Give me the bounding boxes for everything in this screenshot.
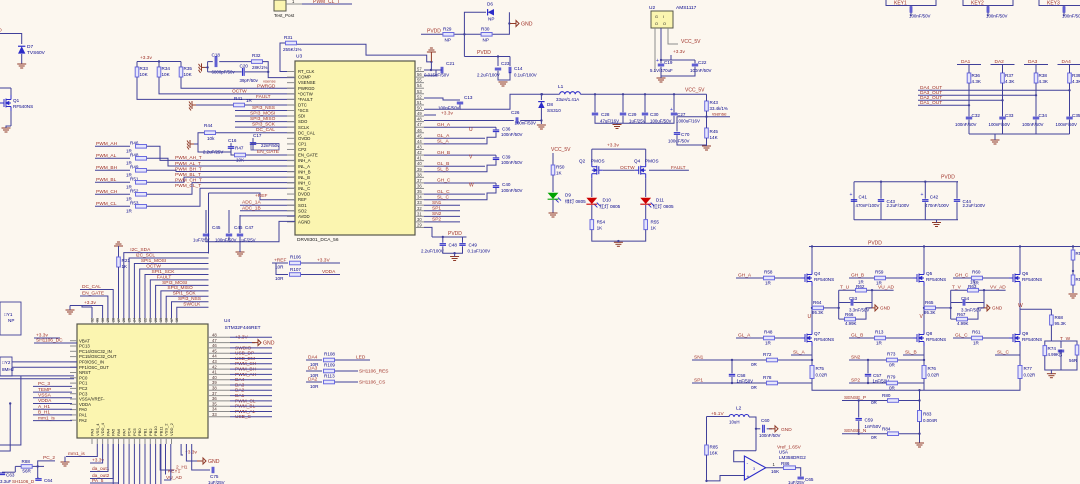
svg-text:PVDD: PVDD: [941, 175, 955, 181]
svg-text:0.1uF/100V: 0.1uF/100V: [514, 73, 537, 78]
svg-text:PB10: PB10: [153, 425, 158, 436]
pin SO2: [287, 210, 295, 212]
pin COMP: [287, 76, 295, 78]
pin PC3: [70, 393, 77, 395]
svg-text:PVDD: PVDD: [868, 241, 882, 247]
svg-text:VDDA: VDDA: [79, 402, 91, 407]
svg-text:41: 41: [417, 156, 422, 161]
svg-text:GL_A: GL_A: [437, 133, 450, 139]
microcontroller U4 STM32F446RET: [77, 324, 208, 438]
wire phase node: [811, 286, 813, 330]
svg-text:1K: 1K: [651, 226, 658, 231]
net label SN2: [424, 215, 460, 217]
svg-text:SCLK: SCLK: [298, 125, 309, 130]
svg-text:GND: GND: [521, 22, 533, 28]
svg-text:R77: R77: [1024, 366, 1033, 371]
svg-text:LM358DRG2: LM358DRG2: [779, 455, 806, 460]
pin INH_A: [287, 160, 295, 162]
pin 57: [415, 71, 424, 73]
resistor R48 1R: [764, 336, 775, 340]
svg-text:40: 40: [212, 375, 217, 380]
capacitor C32 100nF/50V: [966, 117, 972, 119]
capacitor C36 100nF/50V: [495, 127, 497, 129]
svg-text:PC5: PC5: [132, 427, 137, 436]
svg-text:100nF/50V: 100nF/50V: [1022, 122, 1044, 127]
svg-text:42: 42: [417, 150, 422, 155]
svg-text:39pF/50v: 39pF/50v: [240, 78, 259, 83]
svg-text:PA3: PA3: [90, 428, 95, 436]
svg-text:PB2: PB2: [148, 428, 153, 436]
svg-text:2.2uF/100V: 2.2uF/100V: [963, 203, 986, 208]
wire: [147, 146, 295, 160]
svg-text:C45: C45: [212, 225, 221, 230]
pin 29: [415, 226, 424, 228]
svg-text:33: 33: [417, 200, 422, 205]
svg-text:0R: 0R: [751, 385, 758, 390]
svg-text:C29: C29: [628, 112, 637, 117]
resistor R85 16K: [706, 417, 708, 446]
capacitor 100nF/50V KEY3: [1063, 6, 1065, 12]
pin 45: [415, 137, 424, 139]
pin PWRGD: [287, 87, 295, 89]
svg-text:L1: L1: [558, 84, 564, 90]
svg-text:O: O: [0, 28, 2, 34]
svg-text:R83: R83: [923, 412, 932, 417]
svg-text:23: 23: [138, 318, 142, 322]
svg-text:R64: R64: [813, 300, 822, 305]
svg-text:1K: 1K: [597, 226, 604, 231]
pin AVDD: [287, 215, 295, 217]
resistor R77 0.02R: [1019, 355, 1021, 366]
pin 1: [286, 3, 302, 5]
svg-text:PA5: PA5: [111, 428, 116, 436]
svg-text:GH_C: GH_C: [437, 178, 451, 184]
pin INL_B: [287, 176, 295, 178]
pin NRST: [70, 372, 77, 374]
svg-text:SH1106_D: SH1106_D: [12, 479, 35, 484]
svg-text:ADC_1A: ADC_1A: [242, 200, 261, 206]
svg-text:14K: 14K: [710, 135, 719, 140]
led D10 red 0805: [591, 178, 593, 197]
capacitor C29 1uF/25V: [620, 113, 626, 115]
svg-text:T_V: T_V: [952, 285, 962, 291]
svg-text:KEY2: KEY2: [971, 1, 984, 7]
transistor Q6 RF540NS: [983, 277, 1009, 279]
ground: [915, 443, 924, 447]
svg-text:PC13: PC13: [79, 344, 90, 349]
ground: [677, 135, 707, 145]
svg-text:0.02R: 0.02R: [816, 373, 828, 378]
capacitor C40 100nF/50V: [495, 183, 497, 185]
svg-text:255K/1%: 255K/1%: [283, 47, 302, 52]
svg-text:44: 44: [212, 354, 217, 359]
svg-text:R113: R113: [324, 374, 335, 379]
wire R34 to OCTW: [159, 77, 295, 94]
svg-text:VSS_2: VSS_2: [164, 423, 169, 436]
pin SDO: [287, 121, 295, 123]
net label SL_A: [424, 143, 455, 145]
pin 43: [415, 148, 424, 150]
wire ground caps: [595, 116, 674, 123]
svg-text:100nF/50V: 100nF/50V: [1062, 14, 1080, 19]
pin 48 +3.3V: [208, 336, 230, 338]
pin *SCS: [287, 109, 295, 111]
pin 32: [415, 210, 424, 212]
wire: [464, 56, 510, 58]
svg-text:vsense: vsense: [712, 112, 727, 117]
svg-text:35: 35: [417, 189, 422, 194]
ground: [199, 63, 206, 73]
wire: [147, 188, 295, 206]
svg-text:CP1: CP1: [298, 142, 307, 147]
diode D7 TVS60V: [18, 46, 25, 53]
wire: [198, 133, 231, 152]
resistor R78 0R: [767, 381, 778, 385]
svg-text:+REF: +REF: [255, 193, 267, 199]
svg-text:100nF/50V: 100nF/50V: [1056, 122, 1078, 127]
pin 35: [415, 193, 424, 195]
net label SP2: [424, 221, 460, 223]
resistor R79 0R: [887, 381, 898, 385]
svg-text:SDO: SDO: [298, 119, 308, 124]
svg-text:R88: R88: [22, 459, 31, 464]
resistor R88 56R: [21, 465, 32, 469]
svg-text:AMS1117: AMS1117: [676, 5, 697, 11]
svg-text:46: 46: [417, 128, 422, 133]
wire: [1035, 120, 1037, 134]
pin 30: [415, 221, 424, 223]
svg-text:C21: C21: [446, 61, 455, 66]
svg-text:R55: R55: [651, 220, 660, 225]
svg-text:OCTW: OCTW: [620, 165, 635, 171]
svg-text:R76: R76: [928, 366, 937, 371]
svg-text:红灯 0805: 红灯 0805: [600, 203, 621, 210]
svg-text:NRST: NRST: [79, 370, 91, 375]
svg-text:100nF/50V: 100nF/50V: [989, 122, 1011, 127]
svg-text:SL_B: SL_B: [437, 167, 449, 173]
net label VDDA: [301, 274, 340, 276]
svg-text:CP2: CP2: [298, 147, 307, 152]
svg-text:R106: R106: [290, 255, 301, 260]
wire: [177, 307, 209, 318]
node V: [923, 307, 925, 309]
pin PA0: [70, 409, 77, 411]
svg-text:INL_B: INL_B: [298, 175, 310, 180]
svg-text:33.4k/1%: 33.4k/1%: [710, 106, 728, 111]
wire: [140, 269, 209, 318]
svg-text:37: 37: [417, 178, 422, 183]
svg-text:0.004R: 0.004R: [923, 418, 937, 423]
svg-text:R43: R43: [710, 100, 719, 105]
svg-text:0R: 0R: [889, 386, 896, 391]
ground: [991, 140, 1000, 144]
capacitor C47 1uF/25V: [239, 215, 241, 233]
resistor R107 10R: [276, 263, 288, 275]
pin 46: [415, 132, 424, 134]
svg-text:+: +: [747, 475, 750, 481]
resistor R68 95.3K: [1050, 315, 1054, 325]
svg-text:17: 17: [170, 318, 174, 322]
svg-text:PVDD: PVDD: [448, 231, 462, 237]
ground flag GND: [508, 22, 510, 24]
svg-text:VDD_4: VDD_4: [100, 422, 105, 436]
svg-text:Q5: Q5: [926, 271, 933, 276]
svg-text:C58: C58: [737, 373, 746, 378]
svg-text:C48: C48: [449, 243, 458, 248]
transistor Q7 RF540NS: [775, 337, 801, 339]
svg-text:TVS60V: TVS60V: [27, 50, 46, 56]
pin 50: [415, 109, 424, 111]
svg-text:2.2uF/100V: 2.2uF/100V: [887, 203, 910, 208]
svg-text:R44: R44: [204, 123, 213, 128]
svg-text:INH_B: INH_B: [298, 169, 311, 174]
wire: [15, 465, 21, 467]
svg-text:*FAULT: *FAULT: [298, 97, 313, 102]
svg-text:C70: C70: [681, 132, 690, 137]
capacitor C13 100nF/50V: [424, 98, 460, 100]
wire: [21, 54, 23, 64]
op-amp U5A LM358DRG2: [744, 456, 765, 480]
pin 48: [415, 121, 424, 123]
resistor R41 1R: [234, 103, 245, 107]
svg-text:R45: R45: [710, 129, 719, 134]
svg-text:R107: R107: [290, 267, 301, 272]
svg-text:R68: R68: [1055, 315, 1064, 320]
svg-text:*SCS: *SCS: [298, 108, 309, 113]
svg-text:34: 34: [417, 195, 422, 200]
svg-text:GND: GND: [263, 341, 275, 347]
transistor Q5 RF540NS: [886, 277, 913, 279]
svg-text:RT_CLK: RT_CLK: [298, 69, 315, 74]
wire: [150, 280, 208, 318]
svg-text:PC15/OSC32_OUT: PC15/OSC32_OUT: [79, 354, 117, 359]
svg-text:PC1: PC1: [79, 381, 88, 386]
svg-text:PWM_AL_T: PWM_AL_T: [175, 161, 201, 167]
svg-text:30: 30: [417, 217, 422, 222]
svg-text:1000uF/16V: 1000uF/16V: [676, 119, 700, 124]
resistor R58 1R: [764, 276, 775, 280]
resistor R21 1K: [114, 242, 123, 246]
wire pin48: [424, 120, 514, 122]
capacitor 100nF/50V KEY2: [987, 6, 989, 12]
svg-text:C14: C14: [514, 66, 523, 71]
pin 51: [415, 104, 424, 106]
transistor Q1 RF540NS: [0, 95, 11, 111]
wire: [246, 154, 295, 156]
svg-text:ADC_1B: ADC_1B: [242, 205, 261, 211]
resistor R76 0.02R: [923, 360, 925, 366]
svg-text:SENSE_N: SENSE_N: [844, 428, 867, 434]
svg-text:EN_GATE: EN_GATE: [257, 149, 279, 155]
svg-text:R73: R73: [887, 352, 896, 357]
svg-text:O: O: [663, 22, 666, 26]
svg-text:U3: U3: [296, 54, 302, 60]
pin EN_GATE: [287, 154, 295, 156]
svg-text:GND: GND: [781, 427, 792, 433]
svg-text:C59: C59: [865, 418, 874, 423]
net label SPI3_MISO: [235, 121, 295, 123]
wire: [1045, 355, 1077, 370]
svg-text:R35: R35: [184, 66, 193, 71]
svg-text:10K: 10K: [140, 72, 149, 77]
resistor R66 4.99K: [845, 317, 856, 321]
svg-text:SN1: SN1: [432, 200, 442, 206]
svg-text:SPI3_SCK: SPI3_SCK: [252, 122, 276, 128]
resistor R106 10R: [290, 261, 301, 265]
pin 36: [415, 187, 424, 189]
svg-text:PC_2: PC_2: [43, 455, 55, 461]
svg-text:C42: C42: [930, 195, 939, 200]
svg-text:37: 37: [212, 391, 217, 396]
svg-text:+3.3V: +3.3V: [317, 258, 330, 264]
wire: [424, 227, 432, 237]
resistor R86 16K: [766, 467, 784, 469]
net label SL_C: [424, 199, 455, 201]
svg-text:C39: C39: [502, 154, 511, 159]
crystal Y2 8MHz: [0, 357, 12, 376]
svg-text:VDD_2: VDD_2: [169, 422, 174, 436]
ground: [499, 82, 508, 86]
svg-text:VSSA/VREF-: VSSA/VREF-: [79, 397, 105, 402]
svg-text:C19: C19: [664, 60, 673, 65]
svg-text:2.2uF/100V: 2.2uF/100V: [421, 249, 444, 254]
svg-text:GND: GND: [992, 306, 1003, 311]
pin 34: [415, 199, 424, 201]
pin REF: [287, 199, 295, 201]
svg-text:PA1: PA1: [79, 413, 87, 418]
svg-text:16K: 16K: [771, 469, 780, 474]
svg-text:PB11: PB11: [158, 426, 163, 436]
svg-text:R33: R33: [140, 66, 149, 71]
resistor R36 4.3K: [967, 73, 971, 83]
svg-text:0.02R: 0.02R: [928, 373, 940, 378]
net label GH_A: [424, 126, 496, 128]
net label ADC_1A: [240, 204, 295, 206]
svg-text:R13: R13: [875, 330, 884, 335]
svg-text:C20: C20: [240, 64, 249, 69]
capacitor C30 100uF/50V: [642, 113, 648, 115]
svg-text:VU_AD: VU_AD: [878, 285, 895, 291]
pin VBAT: [70, 340, 77, 342]
svg-text:U: U: [469, 127, 473, 133]
capacitor C63 3.3uF/50V: [0, 473, 5, 475]
svg-text:Q6: Q6: [1022, 271, 1029, 276]
resistor R72 0R: [767, 358, 778, 362]
capacitor C75: [192, 444, 210, 470]
svg-text:48: 48: [417, 117, 422, 122]
wire: [161, 291, 209, 318]
svg-text:56R: 56R: [22, 469, 31, 474]
svg-text:U2: U2: [649, 5, 655, 11]
resistor R83 0.004R: [919, 390, 921, 410]
svg-text:R34: R34: [162, 66, 171, 71]
svg-text:PWRGD: PWRGD: [257, 83, 276, 89]
pin 40: [415, 165, 424, 167]
svg-text:R21: R21: [122, 258, 131, 263]
svg-text:SL_A: SL_A: [437, 139, 450, 145]
pin 41 PWM_AH: [208, 373, 230, 375]
svg-text:R32: R32: [252, 53, 261, 58]
svg-text:SS310: SS310: [547, 108, 561, 113]
svg-text:R31: R31: [284, 35, 293, 40]
pin 49: [415, 115, 424, 117]
ground flag: [869, 305, 878, 311]
svg-text:R86: R86: [781, 461, 790, 466]
svg-text:38: 38: [212, 386, 217, 391]
connector Test_Post: [274, 0, 286, 11]
svg-text:FAULT: FAULT: [256, 94, 271, 100]
pin 53: [415, 93, 424, 95]
svg-text:PWM_BH_T: PWM_BH_T: [175, 166, 202, 172]
svg-text:R47: R47: [235, 146, 244, 151]
svg-text:OVDD: OVDD: [298, 136, 310, 141]
capacitor C48 2.2uF/100V: [440, 244, 446, 246]
wire: [209, 193, 296, 200]
wire: [206, 66, 208, 68]
svg-text:25: 25: [127, 318, 131, 322]
svg-text:R57: R57: [1076, 277, 1080, 282]
svg-text:R75: R75: [816, 366, 825, 371]
svg-text:470nF/100V: 470nF/100V: [856, 203, 880, 208]
svg-text:NP: NP: [488, 17, 494, 22]
svg-text:0.02R: 0.02R: [1024, 373, 1036, 378]
pin *FAULT: [287, 98, 295, 100]
svg-text:I: I: [663, 15, 664, 19]
svg-text:1R: 1R: [765, 281, 772, 286]
svg-text:KEY1: KEY1: [894, 1, 907, 7]
wire DA bottom rail: [969, 133, 1070, 135]
svg-text:54: 54: [417, 83, 422, 88]
svg-text:PA6: PA6: [116, 428, 121, 436]
svg-text:45: 45: [417, 133, 422, 138]
svg-text:47: 47: [212, 338, 217, 343]
svg-text:R54: R54: [597, 220, 606, 225]
svg-text:T_U: T_U: [840, 285, 850, 291]
pin CP1: [287, 143, 295, 145]
svg-text:绿灯 0805: 绿灯 0805: [565, 198, 586, 205]
svg-text:Q9: Q9: [1022, 331, 1029, 336]
svg-text:R38: R38: [1039, 73, 1048, 78]
wire: [0, 102, 1, 104]
pin CP2: [287, 148, 295, 150]
capacitor C34 100nF/50V: [1033, 117, 1039, 119]
svg-text:VV_AD: VV_AD: [990, 285, 1006, 291]
ground flag: [767, 428, 772, 430]
ground: [1047, 374, 1056, 378]
resistor R108 10R: [324, 358, 335, 362]
pin 47 GNDFLAG: [208, 342, 230, 344]
pin *OCTW: [287, 93, 295, 95]
pin 38: [415, 176, 424, 178]
ground: [660, 67, 662, 76]
wire: [166, 296, 208, 318]
svg-text:31: 31: [417, 211, 422, 216]
svg-text:0.015uF/50V: 0.015uF/50V: [424, 73, 449, 78]
svg-text:PWM_CH_T: PWM_CH_T: [175, 177, 202, 183]
pin 45 USB_DP: [208, 352, 230, 354]
wire: [196, 104, 233, 106]
pin 37: [415, 182, 424, 184]
transistor Q8 RF540NS: [886, 337, 913, 339]
svg-text:PVDD: PVDD: [427, 29, 441, 35]
svg-text:C75: C75: [210, 474, 219, 479]
wire: [455, 132, 496, 144]
resistor R50 1K: [552, 153, 554, 165]
svg-text:1K: 1K: [122, 264, 129, 269]
svg-text:Q2: Q2: [579, 158, 586, 163]
svg-text:R72: R72: [763, 352, 772, 357]
svg-text:KEY1: KEY1: [168, 469, 181, 475]
